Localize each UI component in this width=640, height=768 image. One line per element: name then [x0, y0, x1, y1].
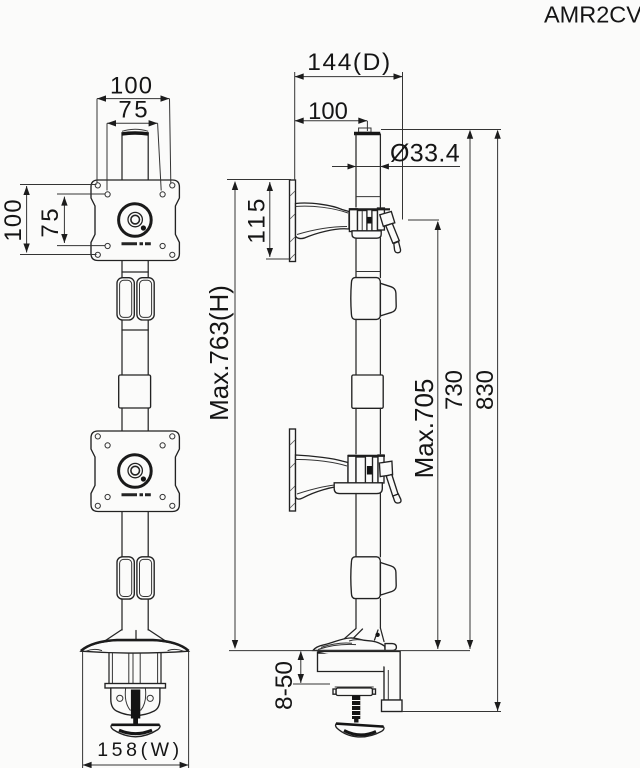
clamp rear column base block [382, 700, 403, 712]
plate2 screw holes outer [95, 434, 100, 439]
VESA plate upper: outline [91, 180, 179, 261]
cable clip right (upper pair) [137, 278, 154, 320]
clamp top plate (side) [318, 652, 385, 672]
VESA plate2 side profile [290, 429, 296, 511]
dim line Max763 [234, 182, 236, 648]
pole upper segment [122, 133, 148, 180]
dim line 75 top [107, 122, 158, 124]
ext lines 100 left [20, 185, 97, 255]
clamp rear column (side) [318, 652, 401, 701]
base dome [81, 641, 189, 654]
pole cap nub (side) [359, 128, 371, 132]
pole above joint [356, 319, 380, 375]
svg-text:Max.763(H): Max.763(H) [204, 285, 234, 421]
ext line Max705 top [408, 219, 439, 221]
pole bottom (side) [356, 599, 380, 628]
plate2 brand text strip [122, 493, 151, 496]
svg-text:Max.705: Max.705 [409, 379, 439, 479]
pole top cap [122, 129, 148, 131]
clamp body hole left [117, 695, 123, 701]
riser cylinder [109, 653, 161, 684]
joint sleeve (front) [119, 375, 151, 408]
ext lines 158 [83, 652, 189, 768]
dim line 830 [497, 131, 499, 711]
ext line 8-50 bottom [293, 683, 330, 685]
desk surface line [229, 650, 470, 652]
shoe bracket lower [334, 483, 382, 494]
plate2 hub outer ring [119, 455, 152, 488]
collar end cap [378, 208, 385, 230]
clamp body inner cup [125, 689, 145, 711]
svg-text:115: 115 [243, 196, 270, 244]
tilt lever upper: grip nub [394, 242, 401, 253]
pole lower (side) [356, 494, 380, 557]
plate2 hub dot [141, 476, 146, 481]
pole seam (side) [356, 196, 380, 198]
collar end cap lower [378, 455, 384, 483]
svg-text:158(W): 158(W) [97, 739, 183, 761]
dim line 144 [295, 76, 403, 78]
collar dark slot lower [367, 466, 373, 475]
clamp screw (front, threaded) [131, 690, 140, 719]
collar ring A lower [356, 457, 365, 484]
svg-text:144(D): 144(D) [307, 49, 392, 76]
tilt lever lower: head [379, 461, 392, 476]
tilt lever upper: shaft [386, 224, 400, 244]
cable clip tab (side, upper) [380, 283, 396, 316]
cable clip left (lower pair) [117, 557, 134, 599]
ext lines 75 top [107, 123, 161, 190]
ext lines 75 left [57, 194, 105, 246]
dim line diameter [332, 166, 460, 168]
dim line 100 left [26, 186, 28, 253]
boot flare [104, 630, 166, 642]
ext lines 144 [295, 72, 403, 220]
pole between assemblies [356, 238, 380, 278]
collar ring B [372, 211, 378, 232]
shoe bracket upper [352, 231, 381, 238]
foot (side) [313, 638, 385, 650]
clamp knob (side) [336, 723, 384, 737]
pole below joint [356, 408, 380, 454]
clamp knob (front) [111, 725, 160, 737]
dim line 158 [83, 764, 189, 766]
dim line 8-50 [300, 652, 302, 684]
tilt lever lower: grip nub [393, 494, 401, 503]
clamp body hole right [147, 695, 153, 701]
svg-text:75: 75 [37, 206, 64, 238]
boot dark dot [375, 633, 379, 637]
plate1 hub inner ring [131, 215, 140, 224]
plate1 hub outer ring [119, 204, 152, 237]
clamp top plate (front) [105, 684, 166, 689]
dim line Max705 [437, 222, 439, 649]
clamp screw (side, threaded) [352, 696, 360, 720]
cable clip tab (side, lower) [380, 563, 396, 596]
dim line 100 top [97, 98, 170, 100]
ext line 730/830 top [381, 129, 501, 131]
dim line 115 [269, 182, 271, 257]
collar top bar lower [348, 455, 385, 457]
svg-text:75: 75 [118, 97, 150, 124]
pole side edges [356, 134, 380, 207]
svg-text:100: 100 [0, 198, 27, 241]
tilt lever lower: shaft [386, 475, 398, 497]
pole seam tick [356, 271, 380, 273]
tilt lever upper: head [380, 212, 395, 227]
svg-text:8-50: 8-50 [271, 661, 298, 710]
dim line 75 left [63, 197, 65, 243]
arm funnel lower [296, 455, 349, 499]
pole segment above plate2 [122, 408, 148, 431]
plate1 brand text strip [122, 242, 151, 245]
svg-text:AMR2CV: AMR2CV [544, 1, 640, 27]
cable clip left (upper pair) [117, 278, 134, 320]
cable clip block (side, upper) [351, 278, 381, 320]
svg-text:730: 730 [441, 370, 468, 410]
collar dark slot [367, 217, 372, 224]
pole clamp collar lower [348, 456, 356, 485]
pole segment below upper clips [122, 320, 148, 375]
svg-text:100: 100 [110, 73, 153, 100]
plate2 hub middle ring [128, 463, 142, 477]
VESA plate1 side profile [290, 180, 296, 262]
pole seam line [122, 329, 148, 331]
dim line 730 [469, 131, 471, 649]
clamp body (front) [111, 688, 160, 716]
plate1 hub middle ring [128, 212, 142, 226]
plate1 screw holes inner [105, 192, 110, 197]
clamp jaw pad (side) [335, 686, 374, 688]
VESA plate lower: outline [91, 431, 179, 512]
plate2 screw holes inner [105, 443, 110, 448]
plate2 hub inner ring [131, 466, 140, 475]
pole bottom segment [122, 599, 148, 630]
svg-text:Ø33.4: Ø33.4 [390, 139, 460, 167]
pole seam line [122, 271, 148, 273]
ext lines 115 / Max763 top [227, 180, 291, 260]
plate1 screw holes outer [95, 183, 100, 188]
pole segment between plate1 and clips [122, 261, 148, 278]
collar ring A [358, 211, 367, 232]
pole clamp collar upper [349, 209, 357, 232]
ext line 830 bottom [402, 711, 501, 713]
collar top bar [349, 208, 390, 210]
collar ring B lower [373, 457, 379, 484]
ext tick pole center [366, 121, 368, 131]
ext lines 100 top [97, 99, 171, 183]
cable clip right (lower pair) [137, 557, 154, 599]
pole top edge (side) [354, 132, 380, 135]
svg-text:830: 830 [472, 370, 499, 410]
joint sleeve (side) [352, 375, 383, 408]
dome scallops [86, 649, 184, 651]
plate1 hub dot [141, 225, 146, 230]
boot (side) [336, 628, 384, 647]
cable clip block (side, lower) [351, 557, 381, 599]
dim line 100 right [295, 120, 368, 122]
arm funnel upper [296, 203, 350, 239]
pole segment below plate2 [122, 512, 148, 557]
